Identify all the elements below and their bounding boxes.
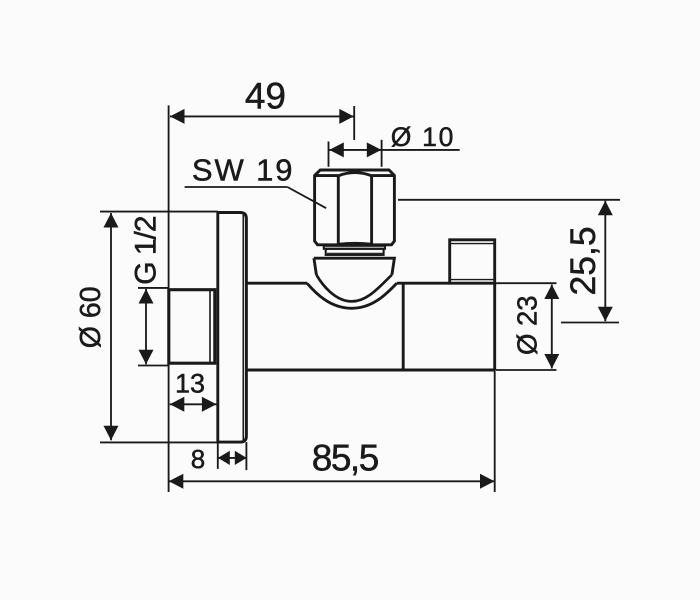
wire: dimension line [145, 289, 147, 364]
dimension 85,5 [169, 370, 495, 492]
arrow Ø23 top [544, 285, 559, 300]
dimension 25,5 [398, 200, 620, 323]
dimension Ø23 [496, 283, 557, 370]
arrow 13 left [170, 397, 185, 412]
arrow 25,5 top [598, 201, 613, 216]
svg-text:G 1/2: G 1/2 [130, 216, 163, 285]
wire: dimension line [169, 480, 495, 482]
gland ring [326, 249, 384, 255]
wire: dimension line [170, 115, 354, 117]
arrow Ø60 top [104, 213, 119, 228]
wire: bottom extension line [496, 369, 557, 371]
wire: left extension line [328, 142, 330, 167]
wire: right extension line [353, 106, 355, 140]
svg-text:49: 49 [245, 76, 286, 117]
wire: dimension line [604, 201, 606, 321]
wall plate (rosette) [218, 213, 247, 443]
dimension 8 [218, 442, 247, 470]
wire: dimension line [170, 403, 217, 405]
outlet boss (compression end) [450, 240, 495, 283]
bonnet collar [314, 258, 395, 275]
svg-text:Ø 23: Ø 23 [511, 295, 542, 355]
svg-text:Ø 10: Ø 10 [391, 122, 455, 152]
dimension 13 [170, 403, 217, 405]
dome outer curve [307, 283, 397, 308]
wire: top extension line [496, 282, 557, 284]
svg-text:25,5: 25,5 [563, 226, 603, 295]
arrow G1/2 top [139, 289, 154, 304]
arrow 49 left [170, 109, 185, 124]
svg-text:SW 19: SW 19 [192, 152, 295, 187]
wire: underline [185, 186, 288, 188]
arrow 8 left [218, 451, 230, 465]
svg-text:8: 8 [191, 444, 205, 474]
wire: right extension line [494, 370, 496, 492]
wire: bottom extension line [138, 365, 169, 367]
arrow 85,5 right [480, 474, 495, 489]
wire: right extension line [245, 442, 247, 470]
wire: top extension line [138, 287, 169, 289]
G 1/2 stub connector [169, 290, 215, 364]
arrow 49 right [339, 109, 354, 124]
dimension Ø60 [100, 212, 218, 443]
wire: right extension line [381, 140, 383, 167]
arrow Ø10 right [367, 142, 382, 157]
dimension Ø10 [329, 140, 460, 167]
arrow 25,5 bottom [598, 307, 613, 322]
valve body [246, 283, 494, 370]
wire: bottom extension line [100, 441, 218, 443]
arrow Ø23 bottom [544, 354, 559, 369]
dome inner curve [316, 275, 392, 302]
svg-text:13: 13 [175, 369, 205, 399]
wire: dimension line [551, 285, 553, 369]
svg-text:Ø 60: Ø 60 [75, 286, 107, 348]
wire: dimension line [218, 457, 247, 459]
dimension G 1/2 [138, 288, 169, 366]
wire: left extension line [217, 442, 219, 469]
arrow 13 right [202, 397, 217, 412]
svg-text:85,5: 85,5 [312, 437, 379, 478]
wire: leader line [287, 187, 326, 208]
washer ring [324, 246, 385, 249]
arrow G1/2 bottom [139, 350, 154, 365]
wire: top extension line [100, 211, 218, 213]
wire: top extension line [398, 199, 620, 201]
wire: dimension line [329, 149, 460, 151]
wire: dimension line [110, 213, 112, 440]
arrow 8 right [235, 451, 247, 465]
hex nut SW19 body [315, 170, 395, 245]
arrow Ø60 bottom [104, 426, 119, 441]
wire: left extension line [168, 105, 170, 492]
arrow Ø10 left [329, 142, 344, 157]
wire: bottom extension line [561, 322, 619, 324]
arrow 85,5 left [169, 474, 184, 489]
label SW 19 [185, 152, 327, 208]
dimension 49 [169, 105, 355, 492]
